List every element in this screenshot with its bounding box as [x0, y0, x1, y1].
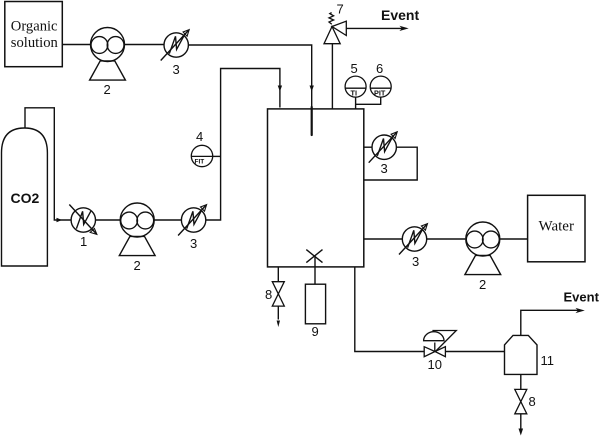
water tank [528, 195, 585, 261]
svg-text:Water: Water [539, 219, 574, 235]
drain wire with arrow [520, 414, 522, 428]
pump 2 (water loop) [465, 222, 501, 275]
wire heater 3 up and into vessel top [206, 69, 280, 221]
svg-text:7: 7 [337, 2, 344, 17]
cooler 1 (CO2 line) [69, 205, 97, 235]
svg-text:Event: Event [381, 7, 419, 23]
drain arrow [519, 429, 524, 436]
control valve 10 [424, 331, 457, 357]
organic solution tank [5, 2, 63, 67]
svg-text:TI: TI [351, 88, 358, 97]
pump 2 (CO2 line) [119, 203, 155, 256]
vessel (autoclave) [268, 109, 364, 267]
wire vessel bottom to control valve 10 [355, 267, 424, 352]
svg-text:3: 3 [190, 236, 197, 251]
cooler 3 (water loop) [399, 224, 428, 255]
flow arrow into vessel (organic) [310, 86, 314, 92]
wire vessel to relief valve 7 [331, 44, 333, 109]
wire cooler to pump 2 (water) [427, 238, 466, 240]
svg-text:CO2: CO2 [11, 190, 40, 206]
wire separator to event [521, 310, 579, 335]
drain arrow [277, 321, 280, 328]
wire valve 1 to pump 2 [96, 219, 120, 221]
wire vessel to drain valve 8 [277, 267, 279, 282]
svg-text:FIT: FIT [195, 159, 205, 166]
svg-text:9: 9 [312, 324, 319, 339]
heater 3 (recirculation) [369, 132, 398, 163]
svg-text:4: 4 [196, 129, 203, 144]
wire cross valve to collector 9 [314, 256, 316, 284]
svg-text:10: 10 [428, 357, 442, 372]
collector 9 [305, 284, 325, 324]
drain valve 8 (separator) [515, 389, 527, 413]
svg-text:11: 11 [541, 353, 555, 368]
CO2 cylinder [2, 128, 48, 266]
svg-text:5: 5 [351, 61, 358, 76]
pump 2 (organic feed) [90, 28, 126, 81]
heater 3 (organic line) [161, 30, 190, 61]
wire FIT to CO2 line [213, 155, 221, 157]
svg-text:Event: Event [564, 290, 600, 305]
wire relief valve to event [346, 27, 403, 29]
drain valve 8 (vessel) [272, 282, 284, 306]
wire separator to valve 8 [520, 374, 522, 389]
svg-text:solution: solution [11, 35, 59, 51]
svg-text:Organic: Organic [11, 19, 58, 35]
temperature indicator TI 5 [345, 76, 366, 97]
wire vessel to cooler 3 (water loop) [364, 238, 402, 240]
svg-text:8: 8 [529, 394, 536, 409]
drain wire with arrow [277, 306, 279, 320]
dip tube inside vessel [311, 107, 313, 135]
wire pump to water tank [500, 238, 527, 240]
svg-text:PIT: PIT [374, 88, 386, 97]
wire heater 3 to vessel dip tube [188, 45, 311, 107]
svg-text:2: 2 [134, 258, 141, 273]
separator 11 [505, 335, 538, 374]
wire PIT to TI line [356, 98, 381, 105]
svg-text:3: 3 [412, 254, 419, 269]
recirculation return wire [364, 147, 417, 180]
wire TI to vessel [355, 98, 357, 109]
wire pump 2 to heater 3 [125, 44, 165, 46]
flow arrow (CO2 out) [57, 218, 63, 222]
pressure indicator transmitter PIT 6 [370, 76, 391, 97]
event arrow [399, 26, 408, 31]
event arrow (separator) [576, 308, 585, 313]
svg-text:8: 8 [265, 287, 272, 302]
wire pump 2 to heater 3 [154, 219, 181, 221]
wire tank to pump 2 [62, 44, 90, 46]
svg-text:2: 2 [104, 82, 111, 97]
relief valve 7 [324, 13, 346, 44]
svg-text:3: 3 [381, 161, 388, 176]
wire control valve to separator 11 [445, 351, 504, 353]
wire vessel to recirculation heater [364, 146, 372, 148]
wire cylinder to valve 1 [25, 108, 71, 220]
svg-text:6: 6 [376, 61, 383, 76]
svg-text:2: 2 [479, 277, 486, 292]
svg-text:1: 1 [80, 234, 87, 249]
flow arrow into vessel (CO2) [278, 86, 282, 92]
flow indicator transmitter FIT 4 [191, 145, 212, 166]
svg-text:3: 3 [173, 62, 180, 77]
heater 3 (CO2 line) [178, 205, 207, 236]
bottom cross valve on vessel [306, 250, 322, 263]
organic solution label [11, 19, 59, 52]
